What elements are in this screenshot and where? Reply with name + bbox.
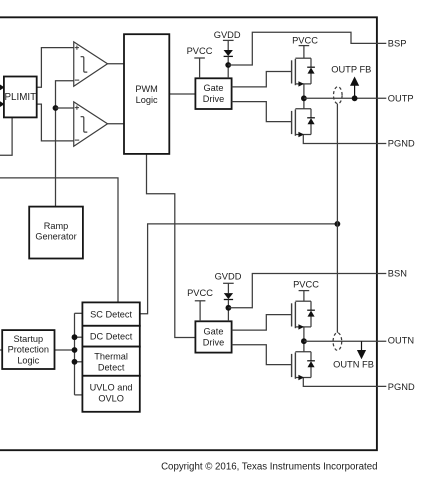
diode Q2 body: [307, 117, 315, 119]
svg-text:OUTN FB: OUTN FB: [333, 359, 374, 369]
device outline box: [0, 17, 377, 450]
PVCC terminal 1: [187, 46, 213, 78]
diode D1 bootstrap: [224, 50, 233, 56]
node OUTN: [301, 338, 307, 344]
node bus dot 2: [72, 347, 78, 353]
PLIMIT input arrow 1: [0, 84, 5, 91]
SC detect box: [82, 302, 139, 325]
wire stub SC detect: [75, 312, 83, 314]
UVLO and OVLO box: [82, 376, 139, 412]
svg-text:PWM: PWM: [135, 84, 157, 94]
svg-text:Gate: Gate: [204, 327, 224, 337]
svg-text:Copyright © 2016, Texas Instru: Copyright © 2016, Texas Instruments Inco…: [161, 462, 377, 473]
PLIMIT input arrow 2: [0, 101, 5, 108]
svg-text:Gate: Gate: [204, 83, 224, 93]
thermal detect box: [82, 347, 139, 376]
wire stub UVLO: [75, 394, 83, 396]
wire PWM bottom to gate drive 2: [147, 154, 196, 338]
svg-text:PVCC: PVCC: [293, 280, 319, 290]
wire left input to SC detect: [0, 178, 118, 303]
OUTN FB arrow: [333, 341, 374, 369]
node bus dot 1: [72, 334, 78, 340]
wire comp2 minus input from PLIMIT: [37, 104, 74, 141]
svg-text:Startup: Startup: [13, 334, 43, 344]
wire startup logic to protection bus: [55, 349, 75, 351]
wire comp2 plus input: [56, 107, 74, 109]
GVDD terminal 1: [214, 30, 387, 79]
svg-text:Protection: Protection: [8, 345, 49, 355]
wire PWM to gate drive 1: [169, 93, 195, 95]
svg-text:Drive: Drive: [203, 338, 224, 348]
svg-text:OUTN: OUTN: [388, 336, 414, 346]
diode D2 bootstrap: [224, 293, 233, 299]
svg-text:PVCC: PVCC: [187, 46, 213, 56]
svg-text:GVDD: GVDD: [215, 272, 242, 282]
svg-text:Thermal: Thermal: [94, 351, 128, 361]
svg-text:PLIMIT: PLIMIT: [5, 92, 37, 103]
svg-text:OVLO: OVLO: [98, 393, 124, 403]
node bus dot 3: [72, 359, 78, 365]
DC detect box: [82, 326, 139, 347]
transistor Q1 high-side: [292, 58, 315, 98]
wire comp2 output: [108, 123, 125, 125]
node OUTP FB junction: [352, 95, 358, 101]
startup protection logic box: [2, 330, 54, 369]
gate drive 2 box: [195, 321, 231, 352]
wire SC detect to current sense: [140, 224, 338, 314]
current sense loop 2: [333, 333, 342, 351]
node ramp junction: [53, 105, 59, 111]
wire bootstrap to BSN: [228, 274, 386, 308]
svg-text:PVCC: PVCC: [187, 288, 213, 298]
diode Q4 body: [307, 360, 315, 362]
OUTP FB arrow: [331, 64, 371, 98]
svg-text:OUTP FB: OUTP FB: [331, 64, 371, 74]
Ramp generator box: [29, 207, 83, 259]
svg-text:Logic: Logic: [17, 355, 39, 365]
GVDD terminal 2: [215, 272, 387, 322]
node bootstrap 2: [226, 305, 232, 311]
svg-text:BSP: BSP: [388, 39, 407, 49]
wire comp1 plus input from PLIMIT: [37, 48, 74, 88]
diode Q3 body: [307, 309, 315, 311]
wire startup logic left input: [0, 349, 2, 351]
wire comp1 minus input / ramp vertical: [56, 81, 74, 207]
svg-text:PGND: PGND: [388, 382, 415, 392]
current sense loop 1: [334, 87, 343, 104]
wire OUTN: [304, 340, 386, 342]
wire stub DC detect: [75, 336, 83, 338]
svg-text:OUTP: OUTP: [388, 94, 414, 104]
svg-text:SC Detect: SC Detect: [90, 309, 132, 319]
svg-text:Logic: Logic: [136, 95, 158, 105]
transistor Q2 low-side: [292, 98, 387, 143]
wire OUTP: [304, 97, 386, 99]
diode Q1 body: [307, 66, 315, 68]
svg-text:GVDD: GVDD: [214, 30, 241, 40]
node bootstrap 1: [225, 62, 231, 68]
op-amp comparator 1: [74, 42, 108, 86]
svg-text:Ramp: Ramp: [44, 221, 69, 231]
wire comp1 output: [108, 63, 125, 65]
wire stub thermal detect: [75, 361, 83, 363]
svg-text:BSN: BSN: [388, 269, 407, 279]
wire PLIMIT bottom exit left: [0, 117, 12, 155]
PLIMIT box: [0, 77, 37, 118]
PWM logic box: [124, 34, 169, 154]
svg-text:DC Detect: DC Detect: [90, 332, 133, 342]
transistor Q4 low-side: [292, 341, 387, 386]
wire gate drive1 to low FET gate: [232, 102, 292, 122]
wire to PGND 2: [303, 378, 386, 387]
svg-text:Detect: Detect: [98, 362, 125, 372]
PVCC terminal 3: [187, 288, 213, 321]
svg-text:PGND: PGND: [388, 139, 415, 149]
transistor Q3 high-side: [292, 301, 315, 341]
PVCC terminal 2: [292, 35, 318, 58]
svg-text:Generator: Generator: [35, 231, 76, 241]
wire protection bus: [74, 313, 76, 395]
wire bootstrap to BSP: [228, 32, 386, 65]
op-amp comparator 2: [74, 102, 108, 146]
wire gate drive2 to low FET gate: [232, 345, 292, 365]
PVCC terminal 4: [293, 280, 319, 302]
wire gate drive2 to high FET gate: [232, 315, 292, 331]
svg-text:Drive: Drive: [203, 94, 224, 104]
wire to PGND 1: [303, 135, 386, 144]
svg-text:UVLO and: UVLO and: [90, 382, 133, 392]
node sense junction: [335, 221, 341, 227]
wire current sense vertical: [336, 104, 338, 333]
gate drive 1 box: [195, 78, 231, 109]
wire gate drive1 to high FET gate: [232, 72, 292, 87]
svg-text:PVCC: PVCC: [292, 35, 318, 45]
node OUTP: [301, 95, 307, 101]
